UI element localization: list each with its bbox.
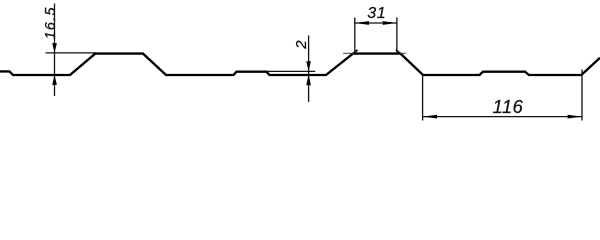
svg-text:2: 2: [293, 40, 310, 50]
dimension 2: bottom arrow (points up to valley level): [306, 74, 311, 85]
dimension 116: dimension line: [423, 116, 582, 118]
dimension 31: right arrow: [383, 21, 397, 25]
dimension 16.5: bottom arrow (points up to valley level): [52, 75, 57, 85]
dimension 16.5: vertical dimension line: [54, 4, 56, 97]
crest level thin mark right of trapezoid 2 crest: [400, 52, 406, 54]
dimension 2: rib-level extension line: [267, 70, 315, 72]
dimension 16.5: top arrow (points down to crest level): [52, 43, 57, 53]
svg-text:16.5: 16.5: [43, 6, 59, 39]
crest corner overshoot right (trapezoid 2): [396, 50, 401, 54]
dimension 31: left extension line: [354, 17, 356, 52]
crest corner overshoot left (trapezoid 2): [353, 50, 358, 54]
dimension 116: left extension line: [422, 75, 424, 121]
sheet profile polyline: [0, 54, 600, 75]
dimension 2: vertical dimension line: [308, 36, 310, 103]
dimension 31: dimension line: [354, 22, 397, 24]
dimension 116: left arrow: [423, 115, 437, 119]
svg-text:116: 116: [493, 96, 524, 117]
crest level thin mark left of trapezoid 2 crest: [343, 52, 354, 54]
dimension 31: right extension line: [396, 17, 398, 52]
dimension 116: right extension line: [581, 70, 583, 121]
svg-text:31: 31: [367, 5, 386, 22]
dimension 116: right arrow: [568, 115, 582, 119]
dimension 2: top arrow (points down to rib level): [306, 61, 311, 71]
dimension 16.5: crest-level extension line: [46, 52, 97, 54]
dimension 31: left arrow: [355, 21, 369, 25]
